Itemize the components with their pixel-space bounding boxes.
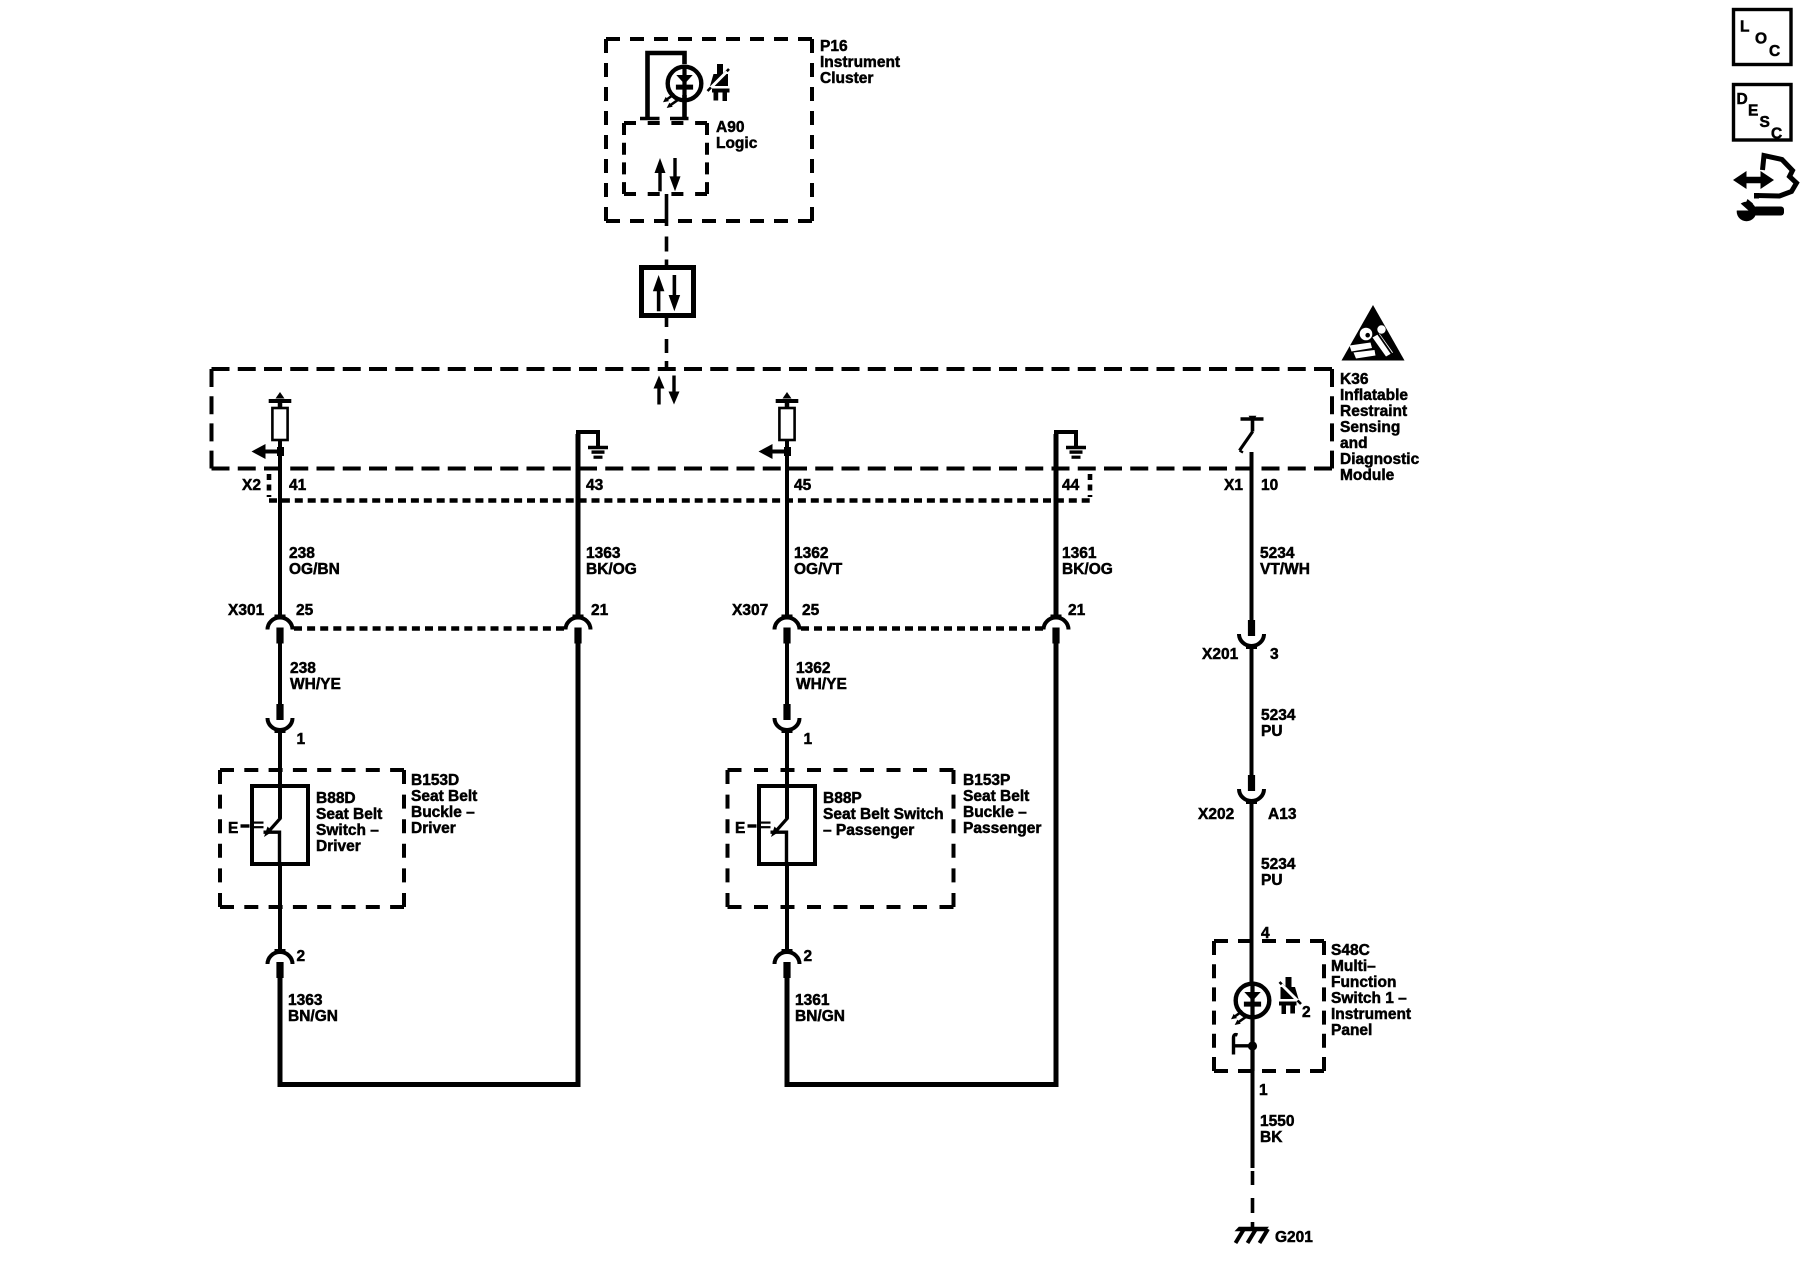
svg-text:25: 25 <box>296 602 314 619</box>
svg-text:Instrument: Instrument <box>820 54 900 71</box>
svg-text:C: C <box>1769 43 1780 60</box>
wire, X201 to X202 <box>1250 648 1254 776</box>
svg-text:VT/WH: VT/WH <box>1260 561 1310 578</box>
svg-text:Switch –: Switch – <box>316 822 379 839</box>
DESC legend box <box>1734 85 1792 143</box>
svg-text:X301: X301 <box>228 602 265 619</box>
svg-text:45: 45 <box>794 477 812 494</box>
svg-text:OG/BN: OG/BN <box>289 561 340 578</box>
svg-text:1: 1 <box>1259 1082 1268 1099</box>
switch B88D E terminal <box>228 820 264 837</box>
svg-text:P16: P16 <box>820 38 848 55</box>
svg-text:D: D <box>1737 91 1748 108</box>
svg-text:1362: 1362 <box>794 545 828 562</box>
svg-text:– Passenger: – Passenger <box>823 822 914 839</box>
wire, X307-25 to passenger buckle pin 1 <box>785 640 789 706</box>
svg-text:S: S <box>1760 114 1770 131</box>
svg-text:X202: X202 <box>1198 806 1234 823</box>
instrument cluster P16 dashed box <box>606 39 812 221</box>
wire, B88D to pin 2 <box>278 864 282 951</box>
seat belt pictograph in cluster <box>708 64 730 101</box>
seat belt indicator LED in S48C <box>1231 982 1269 1026</box>
connector, driver buckle pin 1 <box>268 704 293 732</box>
wire, pin 43 to X301-21 <box>576 434 581 616</box>
svg-text:5234: 5234 <box>1261 856 1296 873</box>
svg-text:1361: 1361 <box>795 992 830 1009</box>
wire label 5234 VT/WH <box>1260 545 1310 578</box>
wire label 1361 BK/OG <box>1062 545 1113 578</box>
svg-text:L: L <box>1740 19 1749 36</box>
seat belt buckle B153D dashed box <box>220 770 404 907</box>
off-page arrow at driver sense <box>252 444 285 459</box>
svg-text:B153D: B153D <box>411 772 459 789</box>
svg-text:A90: A90 <box>716 119 744 136</box>
svg-text:5234: 5234 <box>1261 707 1296 724</box>
resistor, driver seat belt sense pull-up <box>269 392 292 451</box>
wire, X301-25 to driver buckle pin 1 <box>278 640 282 706</box>
svg-text:Multi–: Multi– <box>1331 958 1376 975</box>
wire, resistor to pin 45 <box>785 441 789 616</box>
svg-text:Sensing: Sensing <box>1340 419 1400 436</box>
svg-text:238: 238 <box>290 660 316 677</box>
svg-text:41: 41 <box>289 477 307 494</box>
B88P label <box>823 790 944 839</box>
svg-text:1362: 1362 <box>796 660 830 677</box>
svg-text:Driver: Driver <box>411 820 456 837</box>
K36 module dashed box <box>212 369 1333 469</box>
svg-text:BK/OG: BK/OG <box>586 561 637 578</box>
svg-text:Panel: Panel <box>1331 1022 1372 1039</box>
svg-text:X2: X2 <box>242 477 261 494</box>
svg-text:21: 21 <box>591 602 609 619</box>
wire label 1362 WH/YE <box>796 660 847 693</box>
svg-text:PU: PU <box>1261 872 1283 889</box>
svg-text:1363: 1363 <box>288 992 323 1009</box>
connector, passenger buckle pin 2 <box>775 951 800 979</box>
svg-text:PU: PU <box>1261 723 1283 740</box>
B88D label <box>316 790 382 855</box>
wire label 1362 OG/VT <box>794 545 843 578</box>
svg-text:Passenger: Passenger <box>963 820 1041 837</box>
wire, pin 1 into switch <box>278 732 282 819</box>
connector X2 dotted outline <box>269 474 1090 501</box>
wire label 5234 PU <box>1261 707 1296 740</box>
svg-text:21: 21 <box>1068 602 1086 619</box>
switch B88P blade <box>771 818 789 865</box>
svg-text:BK/OG: BK/OG <box>1062 561 1113 578</box>
switch contact in S48C <box>1233 1035 1257 1055</box>
wire, passenger pin 2 to ground splice <box>787 640 1056 1085</box>
svg-text:5234: 5234 <box>1260 545 1295 562</box>
svg-text:Diagnostic: Diagnostic <box>1340 451 1420 468</box>
wire label 1363 BN/GN <box>288 992 338 1025</box>
B153P label <box>963 772 1041 837</box>
svg-text:K36: K36 <box>1340 371 1369 388</box>
wire A90 to cluster edge <box>665 194 669 226</box>
serial data arrows in A90 <box>655 158 681 191</box>
svg-text:X307: X307 <box>732 602 768 619</box>
svg-text:S48C: S48C <box>1331 942 1370 959</box>
connector X201 pin 3 <box>1239 620 1264 648</box>
svg-text:Restraint: Restraint <box>1340 403 1407 420</box>
serial data arrows inside K36 <box>654 376 680 405</box>
svg-text:E: E <box>1748 103 1758 120</box>
svg-text:B88D: B88D <box>316 790 356 807</box>
wire, pin 1 into passenger switch <box>785 732 789 819</box>
wire, LED to box bottom <box>1250 1018 1254 1071</box>
dashed wire to G201 <box>1251 1171 1255 1213</box>
svg-text:Seat Belt: Seat Belt <box>411 788 477 805</box>
wire label 1363 BK/OG <box>586 545 637 578</box>
svg-text:1: 1 <box>804 731 813 748</box>
svg-text:3: 3 <box>1270 646 1279 663</box>
connector, driver buckle pin 2 <box>268 951 293 979</box>
B153D label <box>411 772 477 837</box>
svg-text:B153P: B153P <box>963 772 1010 789</box>
resistor, passenger seat belt sense pull-up <box>776 392 799 451</box>
svg-text:BK: BK <box>1260 1129 1283 1146</box>
ground G201 <box>1235 1222 1270 1243</box>
switch B88D box <box>252 786 308 864</box>
svg-text:44: 44 <box>1062 477 1080 494</box>
svg-text:2: 2 <box>297 948 306 965</box>
connector X301 pin 21 <box>566 616 591 644</box>
ground, K36 internal (pin 43 line) <box>578 432 608 467</box>
svg-text:Seat Belt: Seat Belt <box>963 788 1029 805</box>
dotted connector line X301 <box>294 626 565 631</box>
A90 Logic dashed box <box>624 123 707 194</box>
svg-text:X201: X201 <box>1202 646 1239 663</box>
svg-text:2: 2 <box>804 948 813 965</box>
svg-text:WH/YE: WH/YE <box>796 676 847 693</box>
svg-text:25: 25 <box>802 602 820 619</box>
svg-text:Instrument: Instrument <box>1331 1006 1411 1023</box>
wire label 5234 PU (lower) <box>1261 856 1296 889</box>
dashed serial data wire to link box <box>665 237 669 268</box>
svg-text:43: 43 <box>586 477 604 494</box>
svg-text:2: 2 <box>1302 1004 1311 1021</box>
svg-text:1: 1 <box>297 731 306 748</box>
P16 label <box>820 38 900 87</box>
connector X307 pin 25 <box>775 616 800 644</box>
off-page arrow at passenger sense <box>759 444 792 459</box>
svg-text:E: E <box>735 820 745 837</box>
switch B88P box <box>759 786 815 864</box>
switch B88D blade <box>264 818 282 865</box>
svg-text:B88P: B88P <box>823 790 862 807</box>
switch B88P E terminal <box>735 820 771 837</box>
wire, X202 to S48C pin 4 <box>1250 803 1254 985</box>
svg-text:Inflatable: Inflatable <box>1340 387 1408 404</box>
svg-text:Logic: Logic <box>716 135 758 152</box>
svg-text:1363: 1363 <box>586 545 621 562</box>
svg-text:X1: X1 <box>1224 477 1243 494</box>
svg-text:C: C <box>1771 126 1782 143</box>
lamp supply wire loop <box>640 53 689 119</box>
dashed serial data wire to K36 <box>665 317 669 369</box>
serial data arrows in link box <box>653 275 680 311</box>
dotted connector line X307 <box>801 626 1043 631</box>
K36 module label <box>1340 371 1420 484</box>
svg-text:Seat Belt: Seat Belt <box>316 806 382 823</box>
wire label 238 WH/YE <box>290 660 341 693</box>
svg-text:WH/YE: WH/YE <box>290 676 341 693</box>
S48C label <box>1331 942 1411 1039</box>
svg-text:BN/GN: BN/GN <box>795 1008 845 1025</box>
serial data link symbol box <box>642 268 694 316</box>
seat belt indicator LED in cluster <box>663 65 701 109</box>
connector X202 pin A13 <box>1239 775 1264 803</box>
svg-text:Cluster: Cluster <box>820 70 873 87</box>
wire, resistor to pin 41 <box>278 441 282 616</box>
wire, B88P to pin 2 <box>785 864 789 951</box>
svg-text:OG/VT: OG/VT <box>794 561 843 578</box>
connector X307 pin 21 <box>1044 616 1069 644</box>
A90 label <box>716 119 758 152</box>
seat belt buckle B153P dashed box <box>728 770 954 907</box>
svg-text:Seat Belt Switch: Seat Belt Switch <box>823 806 944 823</box>
airbag warning triangle <box>1342 305 1405 361</box>
connector, passenger buckle pin 1 <box>775 704 800 732</box>
svg-text:1361: 1361 <box>1062 545 1097 562</box>
svg-text:E: E <box>228 820 238 837</box>
svg-text:Function: Function <box>1331 974 1396 991</box>
svg-text:and: and <box>1340 435 1368 452</box>
wire label 1361 BN/GN <box>795 992 845 1025</box>
svg-text:238: 238 <box>289 545 315 562</box>
wire label 1550 BK <box>1260 1113 1294 1146</box>
service icon arrows and wrench <box>1732 156 1797 222</box>
wire label 238 OG/BN <box>289 545 340 578</box>
seat belt pictograph in S48C <box>1279 977 1301 1014</box>
svg-text:10: 10 <box>1261 477 1278 494</box>
connector X301 pin 25 <box>268 616 293 644</box>
svg-text:Driver: Driver <box>316 838 361 855</box>
svg-text:A13: A13 <box>1268 806 1297 823</box>
wire, pin 44 to X307-21 <box>1054 434 1059 616</box>
svg-text:Buckle –: Buckle – <box>411 804 475 821</box>
svg-text:BN/GN: BN/GN <box>288 1008 338 1025</box>
wire, X1-10 to X201 <box>1250 452 1254 620</box>
wire, S48C pin 1 to ground <box>1251 1071 1255 1168</box>
LOC legend box <box>1734 10 1792 65</box>
svg-text:Buckle –: Buckle – <box>963 804 1027 821</box>
ground, K36 internal (pin 44 line) <box>1056 432 1086 467</box>
switch, K36 indicator driver (X1) <box>1240 416 1264 453</box>
svg-text:G201: G201 <box>1275 1229 1313 1246</box>
multifunction switch S48C dashed box <box>1214 941 1324 1071</box>
wire, driver pin 2 to ground splice <box>280 640 578 1085</box>
svg-text:1550: 1550 <box>1260 1113 1294 1130</box>
svg-text:O: O <box>1755 31 1767 48</box>
svg-text:Switch 1 –: Switch 1 – <box>1331 990 1407 1007</box>
svg-text:Module: Module <box>1340 467 1395 484</box>
